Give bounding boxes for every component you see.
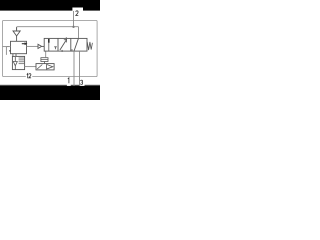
separator line [0, 85, 100, 86]
check valve V1 [13, 27, 20, 41]
canvas background [0, 0, 100, 100]
label 12 white box [26, 73, 33, 79]
U1 left port blob [9, 50, 11, 52]
label 12 [26, 74, 29, 79]
valve divider 2 [70, 38, 72, 51]
wire top pipe [17, 27, 79, 30]
port3 wire [79, 51, 81, 86]
top transparent band (black) [0, 0, 100, 11]
label 1 white box [67, 77, 71, 86]
cell2 flow arrow [60, 37, 67, 52]
connector U1 to boxA [15, 54, 17, 57]
valve divider 1 [57, 38, 59, 51]
boxB check triangle [47, 64, 53, 69]
flow control boxB small rect [41, 58, 48, 62]
label 3 [80, 80, 82, 84]
filter boxA [12, 56, 24, 69]
label 3 white box [80, 80, 84, 86]
boxA triangle [13, 62, 17, 66]
pilot wire U1 to valve [27, 45, 39, 47]
pilot branch elbow down [6, 47, 9, 55]
boxB slash [37, 65, 42, 70]
regulator box U1 [11, 41, 27, 53]
label 1 [68, 78, 69, 83]
label 2 white box [72, 8, 83, 17]
valve main box [44, 38, 87, 51]
wire boxB up to valve [45, 51, 47, 58]
pilot piston dark bar [48, 39, 50, 43]
bottom transparent band (black) [0, 86, 100, 100]
cell3 flow path [72, 39, 78, 51]
flow control boxB outer [36, 64, 54, 70]
wire riser to valve [78, 27, 80, 39]
blocked port T [54, 47, 57, 50]
boxA line stack [19, 58, 25, 64]
arrow inside U1 [22, 43, 25, 45]
pilot arrow triangle [38, 44, 42, 48]
junction dot [73, 26, 75, 28]
piston stem [48, 43, 50, 51]
wire boxA to boxB [25, 66, 36, 68]
port1 wire [73, 51, 75, 86]
pilot wire frame to U1 [3, 46, 11, 48]
boxB stem [43, 62, 45, 64]
label 2 [76, 11, 79, 16]
wire stub port2 external [73, 11, 75, 27]
spring [87, 42, 92, 50]
frame [3, 20, 98, 76]
